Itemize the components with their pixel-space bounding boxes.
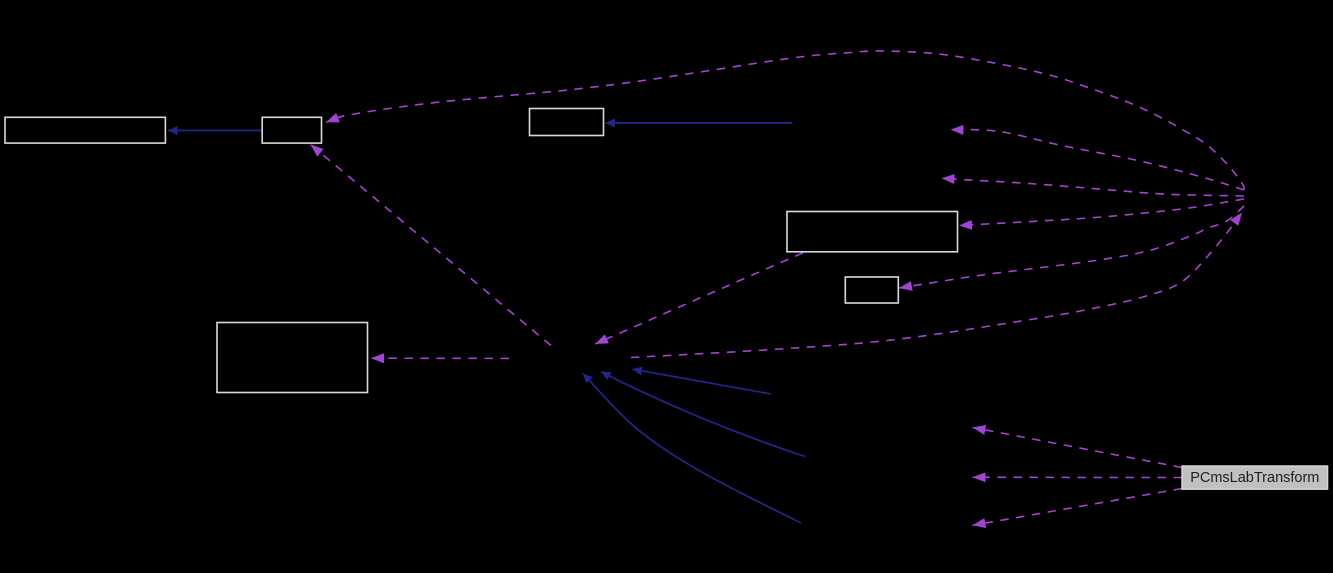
edge: hub -> box E (dashed purple) <box>899 206 1244 288</box>
edge: box D -> central node (dashed purple) <box>595 253 803 344</box>
box A (empty label) <box>5 117 165 143</box>
box C (empty label) <box>530 109 604 136</box>
edge: central node -> box F (dashed purple) <box>371 357 509 359</box>
edge: PCmsLabTransform -> hidden node lower (dashed purple) <box>973 489 1183 526</box>
edge: central node -> hub (dashed purple) <box>631 213 1242 358</box>
edge: central node -> box B bottom (dashed purple) <box>311 145 552 346</box>
svg-text:PCmsLabTransform: PCmsLabTransform <box>1190 470 1319 486</box>
edge: box B -> box A (solid blue) <box>168 130 262 132</box>
edge: PCmsLabTransform -> hidden node upper (dashed purple) <box>973 428 1183 468</box>
edge: hidden node -> central (solid blue curve 2) <box>583 374 801 524</box>
edge: hub -> hidden node 3 (dashed purple) <box>942 178 1245 196</box>
box E (empty label) <box>845 277 898 303</box>
box F (empty label) <box>217 323 368 393</box>
edge: hub -> box D (dashed purple) <box>959 199 1244 226</box>
box B (empty label) <box>262 117 321 143</box>
edge: hidden node -> box C (solid blue) <box>606 122 793 124</box>
edge: hidden node -> central (solid blue straight) <box>633 369 772 394</box>
box D (empty label) <box>787 212 958 252</box>
edge: hub -> hidden node 2 (dashed purple) <box>951 130 1245 191</box>
edge: big arc hub -> box B (dashed purple) <box>326 51 1244 190</box>
node PCmsLabTransform (current class, grey fill) <box>1182 466 1328 489</box>
edge: PCmsLabTransform -> hidden node middle (dashed purple) <box>973 476 1183 478</box>
edge: hidden node -> central (solid blue curve 1) <box>601 372 805 457</box>
